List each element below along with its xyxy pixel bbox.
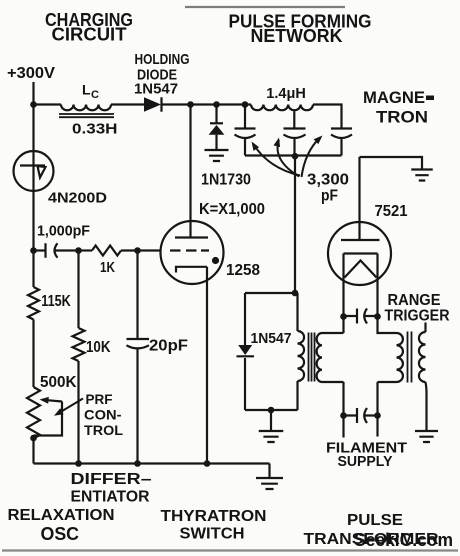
svg-text:ENTIATOR: ENTIATOR <box>71 489 150 506</box>
wire to 1K <box>79 249 93 251</box>
svg-text:SWITCH: SWITCH <box>180 526 245 543</box>
tube thyratron anode plate <box>175 236 208 238</box>
node 10K bottom junction <box>75 460 82 467</box>
svg-text:TROL: TROL <box>84 422 123 438</box>
tube thyratron gas dot <box>212 257 219 264</box>
svg-text:TRIGGER: TRIGGER <box>385 308 450 325</box>
wire filament supply stub right <box>376 416 378 437</box>
svg-text:1.4μH: 1.4μH <box>266 85 306 102</box>
resistor 10K <box>73 328 85 361</box>
wire 1K to grid node <box>121 249 138 251</box>
svg-text:OSC: OSC <box>41 524 80 544</box>
arrow to C3 <box>302 138 321 178</box>
wire bus to ground <box>268 464 270 479</box>
trigger primary bottom <box>378 381 397 383</box>
ground range trigger <box>415 431 438 442</box>
tube magnetron filament tent <box>345 261 377 278</box>
wire 1N1730 to ground <box>215 135 217 150</box>
wire +300V lead <box>32 82 34 105</box>
svg-text:K=X1,000: K=X1,000 <box>199 201 265 218</box>
diode 1N1730 triangle <box>209 125 225 135</box>
node filament right bottom junction <box>374 412 381 419</box>
capacitor PFN C2 stub <box>293 111 295 128</box>
transformer secondary top <box>322 332 344 334</box>
svg-text:1N547: 1N547 <box>134 81 178 98</box>
diode holding 1N547 triangle <box>144 97 161 111</box>
svg-text:3,300: 3,300 <box>307 172 349 189</box>
wire left leg to secondary <box>342 317 344 334</box>
svg-text:+300V: +300V <box>7 65 55 82</box>
tube magnetron circle <box>328 222 391 285</box>
wire top bus <box>162 103 252 105</box>
arrow to C2 <box>278 140 299 177</box>
tube thyratron grid dashes <box>170 249 209 251</box>
svg-text:115K: 115K <box>41 293 71 310</box>
resistor 1K <box>92 246 121 256</box>
tube 4N200D anode bar <box>20 164 45 166</box>
node 20pF bottom junction <box>134 460 141 467</box>
tube 4N200D triangle <box>38 166 46 178</box>
wire transformer bottom <box>245 409 298 411</box>
node grid junction <box>134 247 141 254</box>
trigger primary winding <box>397 333 403 382</box>
capacitor PFN C1 stub <box>244 105 246 129</box>
node anode junction <box>187 101 194 108</box>
arrow PRF control <box>58 399 83 414</box>
wire magnetron anode <box>358 157 360 240</box>
capacitor PFN C2 plates <box>284 129 306 157</box>
svg-text:NETWORK: NETWORK <box>251 26 343 46</box>
wire PFN to transformer <box>294 156 296 293</box>
transformer primary lead top <box>296 293 298 331</box>
wire PFN bottom <box>245 154 342 156</box>
transformer secondary bottom <box>322 381 344 383</box>
wire filament supply stub left <box>342 416 344 438</box>
node 10K top junction <box>75 247 82 254</box>
trigger secondary to ground <box>426 382 427 431</box>
node row left junction <box>30 247 37 254</box>
node junction at +300V bus <box>30 101 37 108</box>
svg-text:1,000pF: 1,000pF <box>37 223 90 240</box>
wire 4N200D to grid row <box>32 191 34 251</box>
node transformer ground junction <box>268 407 275 414</box>
wire row to 10K <box>77 251 79 329</box>
tube thyratron circle <box>161 221 224 284</box>
wire filament right leg <box>376 254 378 317</box>
scan streak top <box>185 6 345 8</box>
svg-text:PULSE: PULSE <box>347 512 403 529</box>
transformer core <box>309 333 315 382</box>
tube 4N200D circle <box>14 151 54 191</box>
svg-text:MAGNE: MAGNE <box>363 88 425 107</box>
transformer primary lead bottom <box>296 381 298 410</box>
svg-text:1N547: 1N547 <box>251 330 292 347</box>
inductor PFN 1.4uH coil <box>251 105 313 111</box>
svg-text:HOLDING: HOLDING <box>135 51 190 68</box>
node cathode bottom junction <box>204 460 211 467</box>
svg-text:1258: 1258 <box>226 262 260 279</box>
svg-text:500K: 500K <box>40 374 77 391</box>
trigger secondary terminal <box>424 323 426 333</box>
svg-text:RELAXATION: RELAXATION <box>8 507 115 524</box>
svg-text:CIRCUIT: CIRCUIT <box>52 25 127 45</box>
wire 10K to bottom bus <box>77 361 79 464</box>
wire +300V down to 4N200D <box>32 105 34 152</box>
svg-text:SeekIC.com: SeekIC.com <box>354 530 453 550</box>
wire thyratron anode <box>189 105 191 238</box>
node PFN output junction <box>292 153 299 160</box>
ground magnetron <box>411 170 433 181</box>
scan streak bottom <box>2 549 458 551</box>
svg-text:0.33H: 0.33H <box>72 121 118 138</box>
svg-text:1K: 1K <box>100 259 115 276</box>
wire PFN top right <box>313 105 342 129</box>
svg-text:CON-: CON- <box>84 407 122 423</box>
svg-text:10K: 10K <box>86 339 111 356</box>
node 1N1730 junction <box>213 101 220 108</box>
wire filament left leg <box>342 254 344 317</box>
wire grid node to tube <box>138 249 162 251</box>
trigger core <box>408 332 412 383</box>
ground 1N1730 <box>205 150 229 161</box>
svg-text:RANGE: RANGE <box>388 292 441 309</box>
diode 1N1730 bar <box>210 122 223 124</box>
diode holding 1N547 bar <box>160 97 162 111</box>
capacitor filament bottom <box>344 408 378 423</box>
svg-text:C: C <box>91 89 99 101</box>
pot wiper arrow <box>47 400 62 401</box>
wire secondary bottom to cap <box>342 382 344 416</box>
wire 500K to bottom bus <box>32 439 34 464</box>
trigger secondary winding <box>419 332 426 382</box>
resistor 500K <box>27 387 40 439</box>
diode 1N547 damper triangle <box>238 345 252 355</box>
wire damper top <box>244 293 246 345</box>
svg-text:DIFFER–: DIFFER– <box>71 471 152 488</box>
wire transformer top <box>245 292 298 294</box>
pot wiper wire <box>34 402 63 436</box>
tube magnetron anode plate <box>341 239 380 241</box>
wire damper bottom <box>244 358 246 410</box>
wire row to 115K <box>32 251 34 288</box>
capacitor 20pF <box>127 339 150 464</box>
svg-text:PRF: PRF <box>86 391 113 407</box>
wire right leg to trigger <box>378 317 397 334</box>
wire 1N1730 stub <box>215 105 217 124</box>
wire Lc to holding diode <box>111 103 144 105</box>
inductor Lc core lines <box>59 114 114 117</box>
capacitor PFN C1 plates <box>235 129 256 156</box>
svg-text:4N200D: 4N200D <box>48 190 107 207</box>
diode 1N547 damper bar <box>237 355 255 357</box>
wire anode to ground <box>360 157 423 170</box>
transformer primary winding <box>298 331 305 381</box>
capacitor 1000pF <box>34 243 79 257</box>
wire bottom bus <box>34 462 270 464</box>
wire 115K to 500K <box>32 320 34 388</box>
resistor 115K <box>28 287 39 320</box>
svg-text:pF: pF <box>321 188 338 205</box>
ground pulse transformer <box>259 431 284 442</box>
tube magnetron cathode bar <box>344 252 378 254</box>
svg-text:L: L <box>82 82 91 98</box>
svg-text:TRON: TRON <box>376 108 428 127</box>
svg-text:THYRATRON: THYRATRON <box>161 508 267 525</box>
svg-text:SUPPLY: SUPPLY <box>338 453 393 470</box>
tube thyratron cathode <box>176 267 207 273</box>
inductor Lc coil <box>61 105 111 111</box>
transformer secondary winding <box>317 333 322 382</box>
svg-text:1N1730: 1N1730 <box>201 172 251 189</box>
wire to pulse ground <box>270 410 272 431</box>
node wiper junction <box>30 435 37 442</box>
node filament left bottom junction <box>340 412 347 419</box>
svg-text:20pF: 20pF <box>149 338 188 355</box>
wire trigger bottom to cap <box>376 382 378 416</box>
wire cathode down <box>206 267 208 464</box>
capacitor PFN C3 plates <box>331 129 352 156</box>
svg-text:7521: 7521 <box>375 203 408 220</box>
ground differentiator <box>256 478 283 489</box>
arrow to C1 <box>253 144 300 176</box>
node PFN left junction <box>242 101 249 108</box>
tube 4N200D internal wire <box>32 151 34 191</box>
node filament right top junction <box>374 313 381 320</box>
wire bus to Lc <box>34 103 62 105</box>
capacitor filament top <box>344 309 378 324</box>
node transformer top junction <box>292 290 299 297</box>
node filament left top junction <box>340 313 347 320</box>
wire grid node to 20pF <box>136 251 138 340</box>
